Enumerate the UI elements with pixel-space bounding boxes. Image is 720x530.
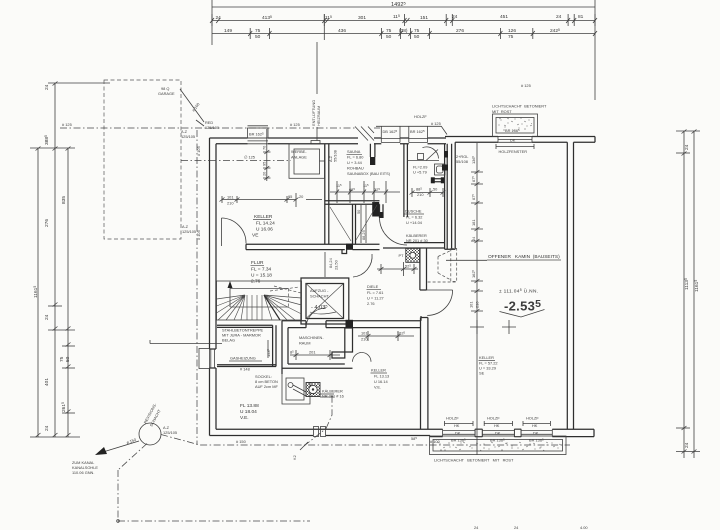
svg-text:U 18.04: U 18.04 [240,409,257,415]
svg-text:55/108: 55/108 [333,150,338,162]
svg-text:BELAG: BELAG [222,338,235,343]
svg-text:181: 181 [471,220,476,227]
svg-text:210: 210 [417,192,424,197]
svg-text:# 105: # 105 [196,230,201,240]
svg-text:88,25: 88,25 [361,230,366,240]
svg-text:SAUNABOX (BAU EITS): SAUNABOX (BAU EITS) [347,171,391,176]
svg-text:210: 210 [361,337,368,342]
svg-text:301: 301 [358,15,366,21]
svg-text:95: 95 [288,194,292,199]
svg-text:OFFENER KAMIN (BAUSEITS): OFFENER KAMIN (BAUSEITS) [488,254,560,260]
svg-text:101: 101 [227,195,234,200]
svg-text:KELLER: KELLER [254,214,273,220]
svg-text:SCHACHT: SCHACHT [310,294,329,299]
svg-text:PT: PT [399,253,405,258]
svg-text:50: 50 [65,356,71,362]
svg-text:149: 149 [224,28,232,34]
svg-text:FL = 6.32: FL = 6.32 [406,215,422,220]
svg-text:436: 436 [338,28,346,34]
svg-text:24: 24 [684,144,690,150]
svg-text:BR 1365: BR 1365 [451,438,466,443]
svg-text:DK: DK [495,431,501,436]
svg-text:81: 81 [578,14,584,20]
svg-text:50: 50 [255,34,261,40]
svg-text:FL = 7.61: FL = 7.61 [367,290,383,295]
svg-text:HOLZF: HOLZF [487,416,500,421]
svg-text:- 4.035: - 4.035 [311,305,327,312]
svg-text:U = 11.27: U = 11.27 [367,296,384,301]
svg-text:DK: DK [533,431,539,436]
svg-text:101: 101 [361,331,368,336]
svg-text:75: 75 [255,28,261,34]
svg-text:835: 835 [61,196,67,204]
svg-text:FL 13.13: FL 13.13 [374,374,389,379]
svg-text:RAUM: RAUM [299,341,310,346]
svg-text:BR 1365: BR 1365 [529,438,544,443]
svg-text:FLUR: FLUR [251,260,264,266]
svg-text:276: 276 [456,28,464,34]
svg-text:75: 75 [386,28,392,34]
svg-text:4.00: 4.00 [580,525,588,530]
svg-text:# 148: # 148 [240,367,250,372]
svg-text:SE: SE [479,371,485,376]
svg-text:K2: K2 [292,455,297,460]
svg-text:KELLER: KELLER [479,355,494,360]
svg-text:ROHBAU: ROHBAU [347,166,364,171]
svg-text:HOLZFENSTER: HOLZFENSTER [499,149,528,154]
svg-text:24: 24 [452,14,458,20]
svg-text:DUSCHE: DUSCHE [405,209,422,214]
svg-text:# 105: # 105 [196,146,201,156]
svg-text:75: 75 [414,28,420,34]
svg-text:DK: DK [455,431,461,436]
svg-text:210: 210 [227,201,234,206]
svg-text:DB 1625: DB 1625 [383,129,398,134]
svg-text:23,50: 23,50 [334,259,339,270]
svg-text:125/105: 125/105 [163,430,177,435]
svg-text:451: 451 [500,14,508,20]
svg-text:V.E.: V.E. [240,415,249,421]
svg-text:HOLZF: HOLZF [446,416,459,421]
svg-text:U = 15.18: U = 15.18 [251,273,272,279]
svg-text:FL = 7.34: FL = 7.34 [251,267,272,273]
svg-text:24: 24 [44,425,50,431]
svg-text:24: 24 [44,84,50,90]
svg-text:MASCHINEN-: MASCHINEN- [299,335,324,340]
svg-text:151: 151 [420,15,428,21]
svg-text:# 125: # 125 [521,83,531,88]
svg-text:U +5.79: U +5.79 [413,170,427,175]
svg-text:LICHTSCHACHT BETONIERT: LICHTSCHACHT BETONIERT [492,104,547,109]
svg-text:LICHTSCHACHT BETONIERT MIT: LICHTSCHACHT BETONIERT MIT ROST [434,458,514,463]
svg-text:GARAGE: GARAGE [158,91,175,96]
svg-text:# 125: # 125 [62,122,72,127]
svg-text:BR 1625: BR 1625 [249,132,264,137]
svg-text:24: 24 [556,14,562,20]
svg-text:BR 1625: BR 1625 [410,129,425,134]
svg-text:(38): (38) [399,28,408,34]
svg-text:HK: HK [532,423,538,428]
svg-text:WERBE-: WERBE- [291,149,307,154]
svg-text:276: 276 [44,219,50,227]
svg-text:KELLER: KELLER [371,368,386,373]
svg-text:SAUNA: SAUNA [347,149,361,154]
svg-text:24: 24 [216,15,222,21]
svg-text:FL = 6.80: FL = 6.80 [347,155,364,160]
svg-text:V.E.: V.E. [374,385,381,390]
svg-text:HOLZF: HOLZF [526,416,539,421]
svg-text:HEIZRAUM: HEIZRAUM [316,106,321,126]
svg-text:DK: DK [510,138,516,143]
svg-text:BR 1365: BR 1365 [505,128,520,133]
svg-text:FL 13.88: FL 13.88 [240,403,259,409]
svg-text:2.76: 2.76 [367,301,375,306]
svg-text:110.06 GNN.: 110.06 GNN. [72,470,94,475]
svg-text:U +14.04: U +14.04 [406,220,423,225]
svg-text:NR 201 # 16: NR 201 # 16 [322,394,344,399]
svg-text:75: 75 [59,356,65,362]
svg-text:HOLZF: HOLZF [414,114,427,119]
svg-text:BR 1365: BR 1365 [490,438,505,443]
svg-text:U 16.14: U 16.14 [374,379,388,384]
svg-text:# 125: # 125 [290,122,300,127]
svg-text:MIT ROST: MIT ROST [492,109,512,114]
svg-text:# 150: # 150 [236,439,247,444]
svg-text:210: 210 [475,301,480,308]
svg-text:AUFZUG -: AUFZUG - [310,288,329,293]
svg-text:101: 101 [469,302,474,309]
svg-text:75: 75 [508,34,514,40]
svg-text:401: 401 [44,378,50,386]
svg-text:55/108: 55/108 [456,159,468,164]
svg-text:FL 14.24: FL 14.24 [256,221,275,227]
svg-text:24: 24 [684,442,690,448]
svg-text:VE: VE [252,233,258,239]
svg-text:± 111.045 Ü.NN.: ± 111.045 Ü.NN. [499,288,538,295]
svg-text:84,24: 84,24 [328,257,333,268]
svg-text:∅ 125: ∅ 125 [244,155,255,160]
svg-text:AUF 2cm MF: AUF 2cm MF [255,384,279,389]
svg-text:50: 50 [414,34,420,40]
svg-text:ANLAGE: ANLAGE [291,155,307,160]
svg-text:NR 201 # 30: NR 201 # 30 [406,238,429,243]
svg-text:GASHEIZUNG: GASHEIZUNG [230,356,256,361]
svg-text:HK: HK [494,423,500,428]
svg-text:HK: HK [454,423,460,428]
svg-text:95: 95 [262,162,267,166]
svg-text:125/105: 125/105 [181,134,195,139]
svg-text:125/105: 125/105 [182,229,196,234]
svg-text:126: 126 [508,28,516,34]
svg-text:125/100: 125/100 [205,125,220,130]
svg-text:2.76: 2.76 [251,279,261,285]
svg-text:201: 201 [309,350,316,355]
svg-text:U 16.06: U 16.06 [256,227,273,233]
svg-text:24: 24 [44,314,50,320]
svg-text:U + 3.44: U + 3.44 [347,160,363,165]
svg-text:50: 50 [386,34,392,40]
svg-text:# 125: # 125 [431,121,441,126]
svg-text:DIELE: DIELE [367,284,379,289]
